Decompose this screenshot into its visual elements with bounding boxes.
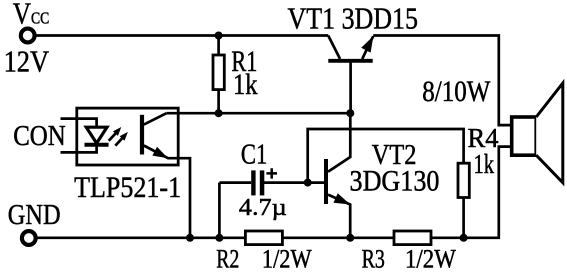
svg-text:C1: C1: [241, 139, 267, 170]
svg-text:1/2W: 1/2W: [405, 245, 456, 274]
svg-text:1k: 1k: [474, 149, 495, 179]
svg-text:GND: GND: [8, 200, 61, 231]
svg-text:8/10W: 8/10W: [422, 75, 491, 108]
svg-text:1k: 1k: [233, 68, 258, 101]
svg-text:CC: CC: [31, 9, 49, 28]
svg-text:TLP521-1: TLP521-1: [74, 171, 181, 204]
svg-text:CON: CON: [13, 121, 65, 152]
svg-text:4.7µ: 4.7µ: [239, 195, 287, 221]
svg-text:12V: 12V: [4, 43, 50, 78]
svg-text:3DG130: 3DG130: [350, 165, 440, 198]
svg-text:1/2W: 1/2W: [262, 244, 312, 273]
svg-text:V: V: [13, 0, 32, 31]
svg-text:R3: R3: [362, 245, 385, 274]
svg-text:R2: R2: [216, 244, 239, 273]
svg-text:VT1 3DD15: VT1 3DD15: [288, 1, 419, 36]
